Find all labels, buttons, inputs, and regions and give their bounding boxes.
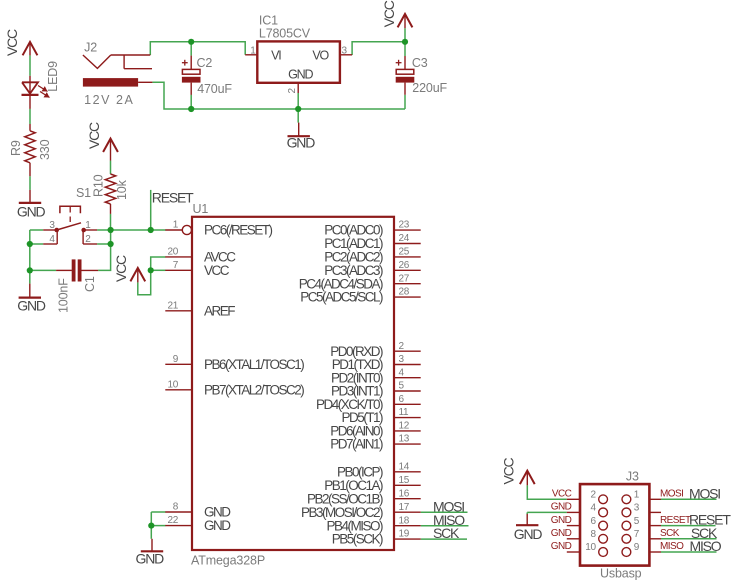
svg-text:4: 4 xyxy=(591,503,597,514)
svg-text:220uF: 220uF xyxy=(412,81,447,95)
svg-text:ATmega328P: ATmega328P xyxy=(191,554,265,568)
svg-text:26: 26 xyxy=(399,260,410,271)
svg-text:11: 11 xyxy=(399,407,410,418)
svg-text:GND: GND xyxy=(514,526,543,542)
svg-text:VI: VI xyxy=(271,48,281,62)
svg-text:2: 2 xyxy=(287,88,298,94)
svg-text:10: 10 xyxy=(167,379,178,390)
svg-text:1: 1 xyxy=(173,220,179,231)
svg-text:SCK: SCK xyxy=(433,525,460,541)
svg-text:15: 15 xyxy=(399,475,410,486)
svg-text:J3: J3 xyxy=(626,470,639,484)
svg-text:1: 1 xyxy=(250,45,256,56)
svg-text:3: 3 xyxy=(634,503,640,514)
svg-text:VCC: VCC xyxy=(381,0,397,27)
svg-text:12V 2A: 12V 2A xyxy=(84,93,134,107)
svg-text:9: 9 xyxy=(634,542,640,553)
svg-text:GND: GND xyxy=(204,518,231,533)
svg-text:GND: GND xyxy=(551,528,572,539)
svg-text:GND: GND xyxy=(136,550,165,566)
svg-text:VCC: VCC xyxy=(4,29,20,56)
svg-text:PD7(AIN1): PD7(AIN1) xyxy=(330,437,383,452)
svg-text:5: 5 xyxy=(634,516,640,527)
svg-text:PC5(ADC5/SCL): PC5(ADC5/SCL) xyxy=(300,290,383,305)
svg-text:16: 16 xyxy=(399,488,410,499)
svg-text:Usbasp: Usbasp xyxy=(600,566,642,580)
svg-text:PB7(XTAL2/TOSC2): PB7(XTAL2/TOSC2) xyxy=(204,382,304,397)
svg-text:4: 4 xyxy=(399,367,405,378)
svg-text:330: 330 xyxy=(38,139,52,160)
svg-text:VCC: VCC xyxy=(113,255,129,282)
svg-text:SCK: SCK xyxy=(660,528,680,539)
svg-text:7: 7 xyxy=(634,529,640,540)
svg-text:27: 27 xyxy=(399,273,410,284)
svg-text:5: 5 xyxy=(399,381,405,392)
svg-text:14: 14 xyxy=(399,461,410,472)
svg-text:C2: C2 xyxy=(197,56,213,70)
svg-text:3: 3 xyxy=(342,45,348,56)
svg-text:19: 19 xyxy=(399,529,410,540)
svg-text:PC6(/RESET): PC6(/RESET) xyxy=(204,223,273,238)
svg-text:J2: J2 xyxy=(84,40,97,54)
svg-text:100nF: 100nF xyxy=(57,278,71,313)
svg-text:24: 24 xyxy=(399,233,410,244)
svg-text:IC1: IC1 xyxy=(259,13,278,27)
svg-text:2: 2 xyxy=(591,490,597,501)
svg-text:AREF: AREF xyxy=(204,303,235,318)
svg-text:PB5(SCK): PB5(SCK) xyxy=(332,532,383,547)
svg-text:1: 1 xyxy=(634,490,640,501)
svg-text:GND: GND xyxy=(17,298,46,314)
svg-text:GND: GND xyxy=(551,515,572,526)
svg-text:10k: 10k xyxy=(115,179,129,200)
svg-text:MISO: MISO xyxy=(690,538,722,554)
svg-text:R10: R10 xyxy=(92,174,106,197)
svg-text:GND: GND xyxy=(551,541,572,552)
svg-text:20: 20 xyxy=(167,247,178,258)
svg-text:LED9: LED9 xyxy=(46,61,60,92)
svg-text:13: 13 xyxy=(399,434,410,445)
svg-text:MOSI: MOSI xyxy=(660,489,683,500)
svg-text:GND: GND xyxy=(17,204,46,220)
svg-text:8: 8 xyxy=(591,529,597,540)
svg-text:GND: GND xyxy=(287,135,316,151)
svg-text:VCC: VCC xyxy=(501,457,517,484)
svg-text:9: 9 xyxy=(173,354,179,365)
svg-text:28: 28 xyxy=(399,287,410,298)
svg-text:GND: GND xyxy=(551,502,572,513)
svg-text:VCC: VCC xyxy=(204,263,230,278)
svg-text:12: 12 xyxy=(399,421,410,432)
svg-text:2: 2 xyxy=(85,234,91,245)
svg-text:470uF: 470uF xyxy=(197,82,232,96)
svg-text:MOSI: MOSI xyxy=(689,485,720,501)
svg-text:18: 18 xyxy=(399,515,410,526)
svg-text:25: 25 xyxy=(399,247,410,258)
svg-text:RESET: RESET xyxy=(152,190,194,206)
svg-text:MISO: MISO xyxy=(660,541,684,552)
svg-text:3: 3 xyxy=(49,220,55,231)
svg-text:22: 22 xyxy=(167,515,178,526)
svg-text:1: 1 xyxy=(85,220,91,231)
svg-text:7: 7 xyxy=(173,260,179,271)
svg-text:10: 10 xyxy=(585,542,596,553)
svg-text:VO: VO xyxy=(312,48,329,62)
svg-text:C3: C3 xyxy=(412,56,428,70)
svg-text:PB6(XTAL1/TOSC1): PB6(XTAL1/TOSC1) xyxy=(204,357,304,372)
svg-text:VCC: VCC xyxy=(86,122,102,149)
svg-text:VCC: VCC xyxy=(552,489,572,500)
svg-text:6: 6 xyxy=(591,516,597,527)
svg-text:4: 4 xyxy=(49,234,55,245)
svg-text:6: 6 xyxy=(399,394,405,405)
svg-text:21: 21 xyxy=(167,300,178,311)
svg-text:17: 17 xyxy=(399,502,410,513)
svg-text:GND: GND xyxy=(288,68,313,82)
svg-text:S1: S1 xyxy=(76,186,91,200)
svg-text:2: 2 xyxy=(399,341,405,352)
svg-text:C1: C1 xyxy=(83,276,97,292)
svg-text:RESET: RESET xyxy=(660,515,691,526)
svg-text:R9: R9 xyxy=(9,140,23,156)
svg-text:L7805CV: L7805CV xyxy=(259,26,311,40)
svg-text:8: 8 xyxy=(173,502,179,513)
svg-text:U1: U1 xyxy=(193,202,209,216)
svg-text:3: 3 xyxy=(399,354,405,365)
svg-text:23: 23 xyxy=(399,220,410,231)
